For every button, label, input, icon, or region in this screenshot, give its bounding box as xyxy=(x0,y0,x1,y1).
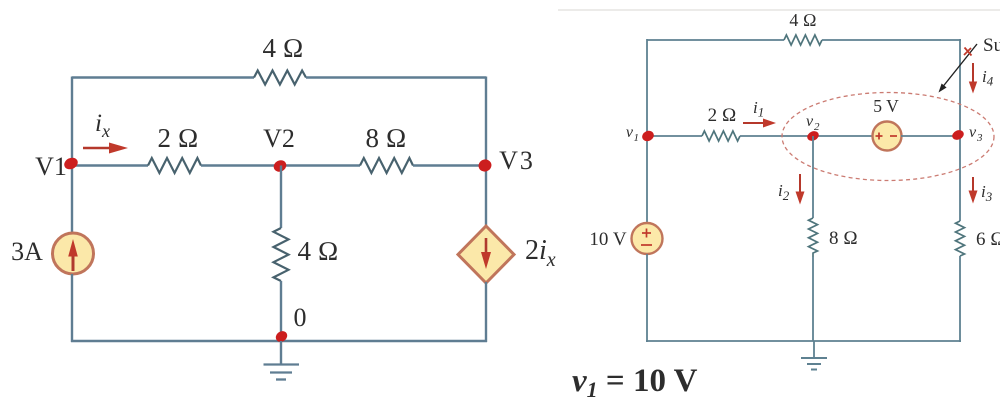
resistor 2ohm (right circuit) xyxy=(702,131,740,141)
wire: right top rail right segment xyxy=(822,39,961,41)
dependent current source 2ix xyxy=(458,226,514,283)
resistor 4ohm top (left circuit) xyxy=(254,71,306,85)
svg-text:10 V: 10 V xyxy=(589,229,626,250)
svg-text:4 Ω: 4 Ω xyxy=(298,236,339,266)
svg-text:v: v xyxy=(806,113,814,130)
svg-text:ix: ix xyxy=(95,110,110,141)
svg-text:i4: i4 xyxy=(982,67,994,89)
voltage source 5V xyxy=(873,122,902,151)
wire: left circuit left rail upper xyxy=(71,77,73,234)
ground (right circuit) xyxy=(801,341,827,370)
svg-text:2 Ω: 2 Ω xyxy=(158,123,199,153)
node V3 xyxy=(477,158,493,174)
wire: middle rail segment 2ohm-8ohm xyxy=(201,164,360,166)
svg-text:6 Ω: 6 Ω xyxy=(976,229,1000,250)
svg-text:4 Ω: 4 Ω xyxy=(263,33,304,63)
wire: right circuit bottom rail xyxy=(646,340,961,342)
wire: v2 vertical upper xyxy=(812,136,814,218)
svg-text:3: 3 xyxy=(976,132,983,144)
resistor 8ohm (right circuit) xyxy=(809,218,818,257)
wire: right circuit right rail lower xyxy=(959,256,961,342)
voltage source 10V xyxy=(632,223,663,254)
current arrow ix xyxy=(83,143,128,154)
svg-text:8 Ω: 8 Ω xyxy=(829,228,858,249)
red tick on annotation arrow xyxy=(964,48,972,56)
node V2 xyxy=(272,158,289,174)
wire: middle rail segment 8ohm-V3 xyxy=(413,164,486,166)
annotation arrow to supernode xyxy=(939,44,978,93)
wire: right circuit left rail upper xyxy=(646,39,648,223)
wire: middle rail 2ohm-v2 xyxy=(740,135,872,137)
svg-text:v: v xyxy=(969,124,977,141)
node V1 xyxy=(62,156,79,172)
resistor 2ohm xyxy=(148,158,201,173)
svg-text:2ix: 2ix xyxy=(525,235,556,271)
svg-text:i1: i1 xyxy=(753,98,764,120)
wire: left top rail right segment xyxy=(306,76,486,78)
resistor 4ohm middle (vertical) xyxy=(274,228,289,281)
wire: right circuit right rail upper xyxy=(959,39,961,221)
svg-text:5 V: 5 V xyxy=(873,96,899,116)
svg-text:3A: 3A xyxy=(11,237,43,266)
ground (left circuit) xyxy=(264,341,300,380)
svg-text:0: 0 xyxy=(294,303,307,332)
svg-text:Su: Su xyxy=(983,35,1000,56)
node v3 xyxy=(951,128,966,141)
wire: left circuit bottom rail xyxy=(71,340,487,342)
node v2 xyxy=(806,129,821,142)
wire: left circuit right rail upper xyxy=(485,77,487,228)
supernode ellipse (dashed) xyxy=(782,93,994,181)
wire: middle rail segment V1-2ohm xyxy=(72,164,148,166)
wire: left circuit left rail lower xyxy=(71,274,73,342)
current arrow i1 xyxy=(743,119,776,128)
svg-text:V3: V3 xyxy=(499,146,535,175)
svg-text:V2: V2 xyxy=(263,124,295,153)
wire: center vertical upper xyxy=(280,166,282,229)
wire: left circuit right rail lower xyxy=(485,282,487,342)
wire: left top rail left segment xyxy=(72,76,254,78)
wire: right circuit left rail lower xyxy=(646,254,648,342)
svg-text:1: 1 xyxy=(634,132,640,144)
current source 3A xyxy=(53,233,94,274)
wire: middle rail v1-2ohm xyxy=(647,135,702,137)
resistor 8ohm xyxy=(360,158,413,173)
wire: right top rail left segment xyxy=(647,39,784,41)
node ground junction xyxy=(274,329,290,344)
resistor 6ohm xyxy=(956,221,965,256)
svg-text:v1 = 10 V: v1 = 10 V xyxy=(572,363,698,402)
current arrow i4 xyxy=(969,63,977,94)
current arrow i3 xyxy=(969,177,978,204)
wire: v2 vertical lower xyxy=(812,257,814,341)
svg-text:8 Ω: 8 Ω xyxy=(366,123,407,153)
wire: center vertical lower xyxy=(280,281,282,341)
node v1 xyxy=(640,129,655,143)
current arrow i2 xyxy=(796,174,805,205)
svg-text:i3: i3 xyxy=(981,182,993,204)
faint page border line top xyxy=(558,9,1000,11)
wire: middle rail 5V-v3 xyxy=(901,135,960,137)
svg-text:4 Ω: 4 Ω xyxy=(789,10,816,30)
svg-text:2: 2 xyxy=(814,121,820,133)
svg-text:2 Ω: 2 Ω xyxy=(708,105,737,126)
resistor 4ohm (right circuit) xyxy=(784,35,822,45)
svg-text:i2: i2 xyxy=(778,181,790,203)
svg-text:V1: V1 xyxy=(35,152,67,181)
